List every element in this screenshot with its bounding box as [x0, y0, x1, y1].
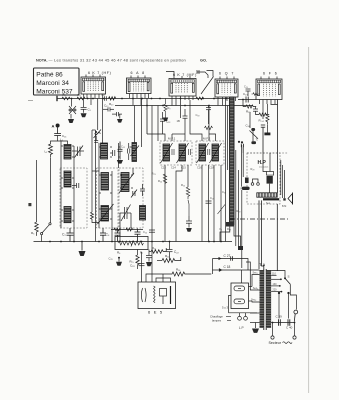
svg-text:H.P: H.P [258, 160, 267, 166]
svg-text:C₁₅: C₁₅ [121, 145, 125, 149]
ground under C5 [117, 119, 123, 123]
MF2 secondary coil [212, 144, 219, 161]
svg-text:C13: C13 [161, 166, 166, 170]
trimmer arrow L9 [98, 204, 114, 224]
tube V3 leads [172, 96, 193, 105]
MF2 primary trimmer arrow [197, 143, 209, 163]
HP choke frame [267, 172, 274, 176]
mains junction dots [272, 322, 296, 324]
V3 top cap wire [166, 72, 174, 77]
svg-text:R₂₃: R₂₃ [152, 172, 156, 176]
resistor R16 row [163, 259, 213, 277]
6E5 cathode coil [154, 286, 156, 303]
ground bus [34, 241, 233, 243]
svg-text:6 A 8: 6 A 8 [131, 71, 146, 75]
svg-text:C₄: C₄ [106, 233, 110, 237]
HP dark bar [245, 178, 249, 184]
capacitor C26 [261, 125, 265, 153]
tube V5 leads [260, 100, 276, 120]
capacitor above V3 [197, 70, 199, 74]
svg-text:M.F.2: M.F.2 [203, 137, 211, 141]
MF2 secondary trimmer arrow [210, 143, 222, 163]
capacitor C11 [146, 250, 152, 262]
antenna terminal A [56, 124, 60, 128]
capacitor C12b [135, 229, 141, 242]
variable capacitor CV3 [120, 205, 131, 222]
main chassis ground [79, 242, 86, 257]
voltage selector pivot [284, 277, 286, 279]
tube V2 leads [130, 94, 149, 106]
voltage selector blade [285, 278, 290, 284]
svg-text:1B: 1B [177, 119, 180, 123]
rectifier anode 2 stem [238, 300, 241, 302]
svg-text:Sec₁: Sec₁ [253, 272, 258, 275]
wire R26 from MF1 [187, 171, 189, 187]
svg-text:L₁: L₁ [45, 150, 48, 154]
capacitor C5 [112, 112, 122, 119]
MF2 value labels [197, 166, 214, 170]
tube V5 6F6 [256, 72, 282, 100]
svg-text:110: 110 [272, 273, 276, 276]
trimmer arrow Tg [218, 205, 226, 215]
wires below MF1 [165, 165, 188, 242]
MF1 secondary coil [179, 144, 186, 161]
capacitor C20a [140, 184, 145, 196]
svg-text:6 E 5: 6 E 5 [148, 310, 163, 315]
AVC bus rail [57, 98, 232, 100]
svg-text:Secteur: Secteur [269, 341, 282, 345]
capacitor C39 [279, 319, 281, 326]
capacitor C24b [149, 230, 155, 232]
T2 lead drop b [141, 99, 143, 148]
capacitor C27 row [213, 256, 249, 270]
capacitor C17 on bus [105, 96, 107, 100]
coil L8 [101, 173, 109, 191]
wire antenna to coil [58, 136, 68, 145]
svg-text:R₂₂: R₂₂ [152, 246, 156, 250]
svg-text:Sec₂: Sec₂ [253, 287, 258, 290]
resistor R9 vertical [164, 104, 167, 114]
tube V2 6A8 [127, 71, 152, 94]
screen rail dots [146, 105, 231, 107]
wave switch S2 [41, 223, 52, 242]
MF1 transformer box [160, 141, 192, 165]
MF2 transformer box [196, 141, 224, 165]
wire cluster to HP left [243, 112, 253, 153]
chauffage arrow wires [226, 317, 231, 321]
column C side wires [119, 143, 134, 242]
HP field winding [267, 176, 273, 184]
6E5 plate bar [170, 286, 172, 304]
pot wiper ground [116, 257, 122, 266]
resistor R17 [205, 126, 213, 129]
potentiometer element [118, 241, 143, 245]
mains switch blade [293, 314, 296, 322]
svg-text:C₁₇: C₁₇ [101, 93, 105, 97]
chassis dash-dot line [230, 218, 289, 220]
svg-text:R₂₄: R₂₄ [158, 179, 162, 183]
capacitor C18 row [213, 268, 260, 272]
capacitor C40 [288, 319, 290, 326]
MF1 internal caps [172, 149, 191, 155]
coil L4 [64, 145, 71, 160]
resistor R10 on bus [109, 97, 116, 100]
svg-text:lampes: lampes [212, 319, 222, 323]
svg-text:R₁: R₁ [63, 93, 66, 97]
wire bus to coil B [102, 99, 104, 144]
svg-text:C₂₂: C₂₂ [174, 250, 180, 254]
resistor R2 on bus [77, 97, 85, 100]
mains switch circle [294, 310, 298, 314]
model box [34, 68, 80, 95]
MF1 primary coil [163, 144, 170, 161]
heater terminal L [238, 313, 242, 320]
HP left wires [242, 145, 285, 198]
capacitor C20 [206, 106, 211, 125]
mains terminal right [293, 323, 296, 340]
tuning eye 6E5 box [138, 282, 176, 309]
bus junction dots [71, 98, 227, 100]
tube V4 pin stubs [220, 77, 234, 80]
wire R9 ground stem [165, 114, 167, 118]
svg-text:C16: C16 [197, 166, 202, 170]
capacitor Cp [246, 89, 251, 96]
svg-text:C₁₇: C₁₇ [210, 196, 214, 200]
power transformer primary winding [260, 270, 264, 328]
left margin tick [28, 100, 33, 102]
resistor R5 on link [126, 228, 133, 231]
wire to C21 [188, 200, 189, 216]
resistor R24 vertical [163, 174, 166, 183]
small cap bars [241, 144, 243, 147]
switch S1 [69, 99, 76, 119]
speaker cone bar [292, 193, 294, 205]
capacitor C21 [186, 216, 192, 228]
svg-text:C 39: C 39 [276, 315, 283, 319]
6E5 deflector [160, 289, 167, 297]
ground under R9 [163, 118, 168, 122]
svg-text:C 18: C 18 [224, 265, 231, 269]
page edge line [308, 47, 310, 393]
capacitor C9c [128, 143, 130, 160]
wire V2 anode down [146, 99, 148, 135]
T2 lead drop a [134, 106, 136, 143]
svg-text:6 K 7 (HF): 6 K 7 (HF) [88, 71, 112, 75]
resistor R14 vertical [266, 104, 269, 124]
coil L11 variable [121, 173, 129, 192]
grid cap wire V3 [197, 72, 208, 78]
capacitor C23 [246, 97, 248, 103]
svg-text:C₁: C₁ [88, 108, 91, 112]
tube V1 6K7 HF [81, 71, 112, 94]
wire antenna down [57, 128, 59, 134]
svg-text:130: 130 [273, 283, 278, 286]
gang dashed box 1 [60, 168, 87, 228]
link rail above pot [111, 229, 143, 231]
svg-text:R₂₆: R₂₆ [181, 183, 185, 187]
capacitor C15b [118, 142, 123, 160]
resistor R15 vertical [136, 250, 139, 270]
rectifier 5Y3 box [231, 283, 249, 309]
svg-text:T. A: T. A [260, 263, 266, 267]
capacitor C17c [206, 201, 212, 203]
oscillator coil L12 [140, 206, 146, 221]
selector drop wires [278, 284, 296, 318]
resistor R22 row [149, 248, 166, 253]
gang dashed box 3 [119, 168, 143, 228]
svg-text:R₉: R₉ [168, 106, 171, 110]
tube V4 grid cap wire [207, 71, 214, 77]
tap end dots [279, 278, 282, 292]
bus start terminal [56, 96, 58, 101]
speaker cone [288, 194, 293, 204]
HP dashed box [247, 153, 280, 204]
resistor R4 on link [114, 228, 121, 231]
coupling wire V4 to V5 [238, 99, 256, 101]
junction dot coupling [242, 99, 244, 101]
svg-text:C₂₀: C₂₀ [244, 85, 248, 89]
MF1 secondary trimmer arrow [177, 143, 189, 163]
capacitor C17b [183, 109, 188, 128]
svg-text:Marconi 537: Marconi 537 [36, 88, 73, 95]
capacitor C8 [100, 228, 106, 242]
capacitor C10b [115, 229, 121, 242]
dark component blob [251, 141, 256, 144]
column B side wires [99, 143, 112, 242]
ground bar stem [266, 125, 268, 133]
svg-text:C14: C14 [171, 166, 176, 170]
svg-text:C₂₈: C₂₈ [130, 264, 135, 268]
resistor R3 vertical [35, 222, 39, 236]
secteur wave symbol [283, 342, 293, 344]
heater terminal R [244, 313, 248, 320]
wire mid drop [157, 106, 159, 135]
wire R9 top [165, 99, 167, 105]
wire bus to trap [97, 99, 99, 131]
MF1 primary trimmer arrow [161, 143, 173, 163]
ground under S1 [68, 119, 74, 123]
left margin blob [28, 203, 31, 206]
capacitor C28 [139, 264, 145, 266]
svg-text:C18: C18 [209, 166, 214, 170]
MF2 internal caps [208, 149, 210, 155]
nota text [36, 57, 207, 62]
capacitor C2 [67, 228, 74, 242]
trap capacitor [94, 136, 98, 142]
power transformer secondary winding [266, 270, 271, 328]
svg-text:C₁₉: C₁₉ [196, 113, 200, 117]
TA left taps [246, 262, 260, 323]
resistor R12 [157, 257, 181, 263]
ground under C21 [186, 228, 192, 232]
svg-text:excitation: excitation [259, 166, 269, 169]
resistor Aw [252, 93, 260, 96]
svg-text:P₁: P₁ [220, 227, 223, 231]
rectifier side wires [229, 287, 253, 313]
trimmer arrow L11 [119, 173, 134, 193]
potentiometer wiper [131, 242, 133, 247]
resistor R11 on bus [196, 97, 204, 100]
HP connector blob [242, 187, 250, 190]
coil L9 variable [101, 206, 109, 222]
TA right taps [271, 271, 285, 292]
rectifier anode 1 stem [238, 287, 241, 289]
gang dashed box 2 [97, 168, 119, 228]
heater wire row [229, 312, 258, 314]
wire MF1 feeds [147, 128, 185, 141]
HP jack circles [251, 179, 259, 185]
potentiometer box [115, 237, 148, 250]
wire C18 to rectifier [241, 270, 243, 283]
padder wire with resistor [91, 130, 100, 242]
rectifier anode 1 [234, 286, 245, 291]
svg-text:6 K 7 (MF): 6 K 7 (MF) [173, 73, 197, 77]
trimmer arrow L10 [131, 146, 140, 157]
svg-text:M.F.1: M.F.1 [168, 137, 176, 141]
svg-text:Pathé 86: Pathé 86 [36, 71, 63, 78]
capacitor C16 [54, 134, 61, 136]
coil L10 [132, 143, 137, 162]
svg-text:5 y 3: 5 y 3 [222, 306, 229, 310]
speaker voice coil [283, 198, 285, 200]
column A side wires [61, 141, 74, 242]
mains wire row [271, 322, 294, 324]
svg-text:R.₁₄: R.₁₄ [259, 119, 265, 123]
svg-text:NOTA.: NOTA. [36, 58, 48, 62]
svg-text:C 27: C 27 [224, 254, 231, 258]
svg-text:GO.: GO. [200, 58, 207, 62]
svg-text:B.M: B.M [282, 205, 286, 208]
wires beside band [226, 98, 242, 269]
svg-text:6 Q 7: 6 Q 7 [219, 72, 235, 76]
capacitor C22 [167, 242, 173, 261]
svg-text:220: 220 [273, 289, 278, 292]
wires below MF2 [202, 165, 221, 242]
coil L5 [64, 171, 71, 187]
coil L7 [101, 143, 108, 159]
trimmer C9 [131, 190, 137, 198]
antenna trap coil [94, 130, 102, 139]
chauffage label [210, 315, 223, 323]
svg-text:R₁₈: R₁₈ [227, 227, 231, 231]
ground under C11 [146, 262, 152, 266]
tube V3 6K7 MF [169, 73, 197, 96]
trimmer C3 [72, 146, 84, 158]
capacitor C13 [160, 112, 165, 128]
power ground [252, 323, 259, 333]
B+ drops to power [259, 200, 277, 271]
wire antenna branch down [50, 158, 52, 223]
output transformer primary [257, 193, 277, 197]
shielded lead band [230, 97, 234, 225]
junction dots pair [238, 141, 240, 143]
wire antenna branch left [51, 141, 58, 144]
mains terminal left [271, 323, 274, 340]
tube V4 leads [218, 97, 236, 101]
trimmer arrow T7 [250, 131, 259, 139]
band bottom labels [220, 227, 231, 231]
output transformer core bar [263, 198, 279, 200]
wire V3 cathode drops [172, 100, 181, 118]
capacitor C6 [110, 150, 115, 156]
capacitor C1 [81, 99, 87, 113]
6E5 top wires [142, 242, 171, 283]
HP dashed top [247, 152, 288, 154]
resistor R25 [243, 100, 256, 109]
svg-text:C 40: C 40 [286, 326, 293, 330]
svg-text:T₇: T₇ [256, 138, 259, 142]
resistor R1s vertical [49, 144, 53, 158]
ground bar under R14 [264, 133, 270, 136]
capacitor C5b [72, 183, 79, 188]
wire 6Q7 drops [218, 101, 223, 106]
junction blob [238, 246, 243, 250]
left AVC rail [36, 160, 38, 222]
tube V3 pin stubs [174, 76, 190, 79]
voltage labels [272, 273, 277, 292]
svg-text:A: A [52, 124, 55, 129]
wire V2 grid down [151, 106, 153, 242]
6E5 deflector stem [162, 296, 164, 304]
tube V2 pin stubs [131, 76, 145, 79]
tube V5 pin stubs [261, 77, 277, 80]
wire V3 anode to MF2 [190, 100, 216, 141]
ground under C15b [117, 160, 123, 164]
diagonal wire to V4 [201, 77, 214, 95]
svg-text:R₂₉: R₂₉ [251, 167, 255, 171]
HP feed wires [263, 153, 270, 193]
svg-text:Marconi 34: Marconi 34 [36, 80, 69, 87]
rectifier anode 2 [234, 299, 245, 304]
resistor R1 on bus [62, 97, 70, 100]
capacitor C10 [103, 107, 114, 111]
svg-text:— Les transfos 31 32 43 44 45: — Les transfos 31 32 43 44 45 46 47 48 s… [49, 57, 187, 62]
6E5 target anode arcs [141, 288, 146, 302]
power transformer core [264, 269, 266, 330]
capacitor C34 blob [251, 128, 255, 131]
capacitor C24 [253, 107, 258, 116]
svg-text:R₁₀: R₁₀ [109, 102, 114, 106]
ground under C1 [81, 113, 87, 117]
svg-text:C₂₉: C₂₉ [109, 257, 113, 261]
band bottom wires [220, 225, 241, 246]
tube V1 leads [84, 94, 103, 105]
tube V5 plate wire down [271, 100, 278, 193]
junction dot b [241, 141, 243, 143]
tube V4 6Q7 [215, 72, 238, 98]
svg-text:L P: L P [239, 326, 244, 330]
tube V1 pin stubs [86, 75, 100, 78]
MF2 primary coil [199, 144, 206, 161]
TA sec labels [251, 272, 258, 302]
svg-text:S: S [288, 275, 290, 279]
band foot blob [226, 222, 234, 227]
resistor R38 [256, 113, 269, 116]
svg-text:C₁₀: C₁₀ [104, 104, 109, 108]
svg-text:R₂₅: R₂₅ [246, 110, 251, 114]
MF1 value labels [161, 166, 186, 170]
resistor R26 vertical [186, 187, 189, 199]
svg-text:C₂₃: C₂₃ [243, 92, 248, 96]
screen rail segment [115, 105, 252, 107]
svg-text:C₂₄: C₂₄ [143, 230, 147, 234]
svg-text:6 F 6: 6 F 6 [263, 72, 278, 76]
ground bus dots [49, 241, 222, 243]
coil L6 [64, 207, 71, 223]
